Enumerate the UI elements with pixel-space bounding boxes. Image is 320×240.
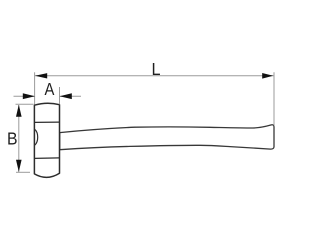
B top extension line [16, 103, 34, 105]
svg-text:L: L [152, 59, 161, 79]
extension line at handle end (for L) [273, 72, 275, 125]
head lower band line [35, 157, 60, 160]
dimension B line [18, 105, 20, 172]
dimension L right arrowhead [262, 73, 273, 79]
head upper band line [35, 121, 60, 123]
dimension A left tail line [14, 95, 36, 97]
handle eye arc on head left edge [35, 129, 38, 145]
dimension B bottom arrowhead (points down) [16, 160, 22, 172]
dimension A left arrowhead (points right) [23, 93, 35, 99]
extension line left (head left edge, for L and A) [34, 72, 36, 104]
dimension A right tail line [60, 95, 81, 97]
dimension B top arrowhead (points up) [16, 105, 22, 117]
B bottom extension line [16, 171, 30, 173]
dimension A right arrowhead (points left) [60, 93, 72, 99]
dimension L line [35, 75, 274, 77]
svg-text:B: B [7, 128, 18, 148]
dimension L left arrowhead [35, 73, 47, 78]
extension line right of head (for A) [59, 87, 61, 104]
svg-text:A: A [44, 79, 54, 99]
handle [60, 125, 274, 150]
hammer head [34, 103, 59, 177]
